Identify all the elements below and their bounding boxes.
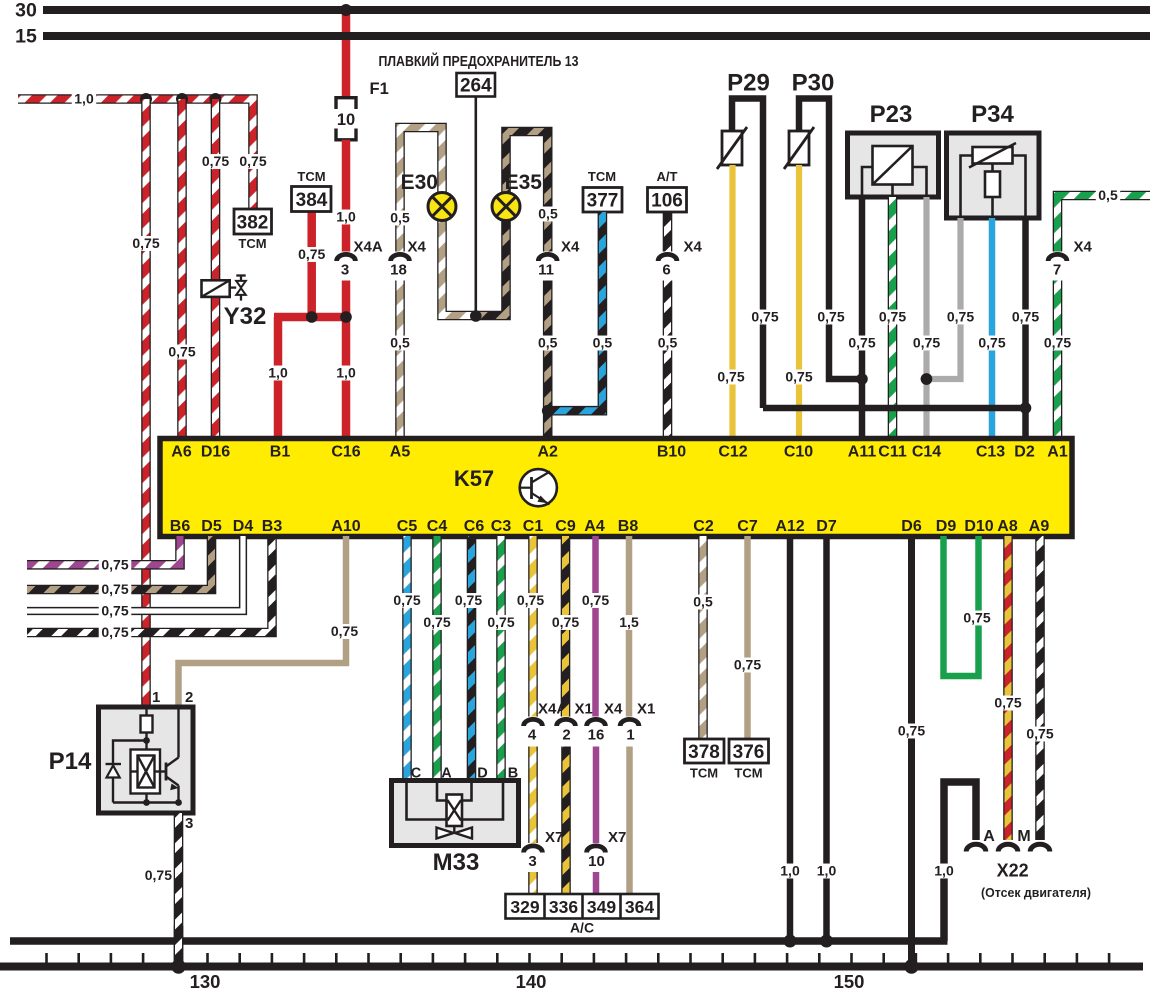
svg-text:C16: C16 — [331, 444, 360, 461]
svg-text:0,75: 0,75 — [994, 694, 1021, 710]
wire: black K57 D6 to bottom rail — [908, 536, 915, 964]
node: junction 264/E30/E35 — [470, 310, 482, 322]
svg-text:D7: D7 — [816, 518, 837, 535]
svg-text:1,0: 1,0 — [934, 862, 954, 878]
wire: black/white K57 A9 to X22-M arc — [1035, 536, 1045, 840]
svg-text:C7: C7 — [737, 518, 758, 535]
svg-text:0,75: 0,75 — [487, 614, 514, 630]
wire: green/white top right to K57 A1 — [1058, 196, 1150, 252]
svg-text:1,0: 1,0 — [780, 862, 800, 878]
wire: yellow/white K57 C1 — [528, 536, 538, 717]
connector X4 pin 18 — [391, 254, 410, 261]
svg-text:376: 376 — [733, 742, 765, 763]
svg-text:X1: X1 — [637, 701, 655, 718]
transistor inside P14 — [155, 770, 167, 772]
svg-text:M: M — [1017, 828, 1030, 845]
svg-text:D6: D6 — [901, 518, 922, 535]
svg-text:A1: A1 — [1047, 444, 1068, 461]
wire: red/white to K57 A6 — [177, 99, 187, 439]
wire: blue/white K57 C5 to M33 C — [402, 536, 412, 781]
svg-text:336: 336 — [549, 897, 578, 917]
svg-text:C: C — [411, 766, 422, 782]
svg-text:D: D — [477, 766, 487, 782]
svg-text:X4: X4 — [561, 239, 580, 256]
wire: black K57 D7 to ground rail — [823, 536, 830, 941]
wire: red X4A-3 down to node, tee to B1 and C16 — [342, 281, 351, 440]
svg-text:A10: A10 — [331, 518, 360, 535]
svg-text:X7: X7 — [545, 829, 563, 846]
lamp E30 — [428, 193, 456, 221]
svg-text:384: 384 — [296, 190, 328, 211]
svg-text:382: 382 — [237, 213, 269, 234]
wire: purple K57 A4 — [592, 536, 599, 717]
svg-text:140: 140 — [516, 971, 547, 990]
node: A12 on upper rail — [784, 935, 797, 948]
svg-text:0,75: 0,75 — [455, 592, 482, 608]
svg-text:378: 378 — [688, 742, 720, 763]
svg-text:F1: F1 — [370, 80, 389, 98]
svg-text:0,75: 0,75 — [717, 368, 744, 384]
svg-text:0,75: 0,75 — [898, 722, 925, 738]
svg-text:130: 130 — [190, 971, 221, 990]
svg-text:X22: X22 — [997, 861, 1029, 881]
svg-text:TCM: TCM — [297, 169, 325, 184]
svg-text:2: 2 — [562, 727, 570, 744]
svg-text:2: 2 — [185, 689, 193, 706]
svg-text:D2: D2 — [1014, 444, 1035, 461]
svg-text:3: 3 — [341, 262, 349, 279]
svg-text:A11: A11 — [848, 444, 877, 461]
svg-text:377: 377 — [587, 191, 619, 212]
svg-text:0,75: 0,75 — [101, 581, 128, 597]
svg-text:0,5: 0,5 — [693, 593, 713, 609]
connector X4 pin 7 — [1048, 254, 1067, 261]
connector X4 pin 6 — [658, 254, 677, 261]
svg-text:0,75: 0,75 — [1026, 725, 1053, 741]
svg-text:1,5: 1,5 — [619, 614, 639, 630]
svg-text:TCM: TCM — [734, 766, 762, 781]
svg-text:30: 30 — [15, 0, 37, 22]
component box 384 (TCM) — [307, 212, 316, 318]
svg-text:0,75: 0,75 — [298, 246, 325, 262]
wire: yellow/black K57 C9 — [561, 536, 571, 717]
svg-text:A6: A6 — [171, 444, 192, 461]
wire: tan/white K57 C2 to 378 — [698, 536, 708, 739]
svg-text:0,75: 0,75 — [879, 308, 906, 324]
node: junction at x=146 — [140, 93, 152, 105]
wire: yellow P29 to K57 C12 — [729, 165, 735, 439]
svg-text:0,75: 0,75 — [751, 308, 778, 324]
svg-text:0,75: 0,75 — [331, 623, 358, 639]
svg-text:B1: B1 — [270, 444, 291, 461]
svg-text:P30: P30 — [792, 70, 835, 97]
node: junction 384 wire / red tee — [306, 311, 318, 323]
svg-text:C4: C4 — [427, 518, 448, 535]
svg-text:0,75: 0,75 — [423, 614, 450, 630]
svg-text:0,75: 0,75 — [913, 334, 940, 350]
control unit K57 — [160, 439, 1072, 537]
svg-text:ПЛАВКИЙ ПРЕДОХРАНИТЕЛЬ 13: ПЛАВКИЙ ПРЕДОХРАНИТЕЛЬ 13 — [379, 52, 579, 70]
component box 376 (TCM) — [729, 739, 769, 763]
svg-text:0,5: 0,5 — [658, 334, 678, 350]
svg-text:K57: K57 — [454, 466, 494, 491]
svg-text:16: 16 — [588, 727, 605, 744]
svg-text:TCM: TCM — [690, 766, 718, 781]
svg-text:0,75: 0,75 — [101, 624, 128, 640]
lamp E35 — [492, 193, 520, 221]
svg-text:1,0: 1,0 — [336, 364, 356, 380]
connector X4A pin 4 — [524, 719, 543, 726]
node: D7 on upper rail — [820, 935, 833, 948]
svg-text:1,0: 1,0 — [817, 862, 837, 878]
svg-text:0,5: 0,5 — [390, 334, 410, 350]
svg-text:(Отсек двигателя): (Отсек двигателя) — [981, 885, 1091, 900]
wire: tan/white K57 A5 up through X4-18 to lamp E30 loop — [395, 281, 405, 440]
svg-text:B6: B6 — [170, 518, 191, 535]
svg-text:C2: C2 — [693, 518, 714, 535]
svg-text:0,5: 0,5 — [538, 334, 558, 350]
wire: black P34 to K57 D2 — [1022, 218, 1029, 439]
svg-text:C3: C3 — [491, 518, 512, 535]
svg-text:A9: A9 — [1029, 518, 1050, 535]
svg-text:329: 329 — [510, 897, 539, 917]
svg-text:0,75: 0,75 — [132, 235, 159, 251]
svg-text:264: 264 — [460, 76, 492, 97]
wire: green loop K57 D9-D10 — [944, 536, 979, 676]
valve motor M33 — [392, 781, 519, 846]
svg-text:150: 150 — [834, 971, 865, 990]
svg-text:C11: C11 — [878, 444, 907, 461]
scale ticks — [45, 953, 48, 963]
svg-text:A: A — [441, 766, 452, 782]
svg-text:C13: C13 — [976, 444, 1005, 461]
component box 382 (TCM) — [237, 154, 270, 169]
bottom bar inside P14 — [113, 801, 179, 803]
svg-text:C1: C1 — [523, 518, 544, 535]
svg-text:0,75: 0,75 — [202, 153, 229, 169]
wire: black ground rail hook to X22 — [944, 782, 976, 941]
svg-text:B3: B3 — [262, 518, 283, 535]
svg-text:0,5: 0,5 — [1098, 187, 1118, 203]
svg-text:1: 1 — [626, 727, 634, 744]
node: junction red wire on bus 30 — [340, 4, 352, 16]
svg-text:C12: C12 — [718, 444, 747, 461]
wire: black/tan loop lamp E35 to K57 A2 — [476, 132, 548, 316]
svg-text:18: 18 — [390, 262, 407, 279]
bus 15 (ignition) — [43, 32, 1150, 40]
svg-text:A: A — [983, 828, 995, 845]
svg-text:0,75: 0,75 — [1044, 334, 1071, 350]
svg-text:1,0: 1,0 — [74, 90, 94, 106]
connector X7 pin 3 — [524, 846, 543, 853]
svg-text:X4: X4 — [604, 701, 623, 718]
component boxes 329/336/349/364 (A/C) — [506, 894, 659, 919]
bus 30 (battery) — [43, 6, 1150, 14]
svg-text:A4: A4 — [584, 518, 605, 535]
connector X4 pin 11 — [538, 254, 557, 261]
wire: green/white P23 to K57 C11 — [888, 197, 898, 439]
svg-text:E30: E30 — [401, 171, 438, 194]
ground rail lower with scale — [0, 963, 1143, 971]
connector X1 pin 2 — [557, 719, 576, 726]
svg-text:A2: A2 — [537, 444, 558, 461]
svg-text:0,75: 0,75 — [168, 343, 195, 359]
wire: blue/black K57 C6 to M33 D — [467, 536, 477, 781]
svg-text:3: 3 — [185, 815, 193, 832]
svg-text:TCM: TCM — [238, 236, 266, 251]
wire: red/white to K57 D16 through Y32 — [211, 99, 221, 439]
component box 378 (TCM) — [685, 739, 725, 763]
wire: black/tan K57 D5 to left — [27, 536, 212, 590]
svg-text:4: 4 — [528, 727, 537, 744]
svg-text:349: 349 — [587, 897, 616, 917]
svg-text:0,75: 0,75 — [848, 334, 875, 350]
svg-text:A12: A12 — [775, 518, 804, 535]
svg-text:TCM: TCM — [588, 169, 616, 184]
svg-text:10: 10 — [588, 853, 605, 870]
svg-text:C6: C6 — [464, 518, 485, 535]
svg-text:11: 11 — [538, 262, 554, 279]
svg-text:C5: C5 — [397, 518, 418, 535]
svg-text:15: 15 — [15, 26, 37, 48]
wire: black P29 hook to bus y408 — [732, 99, 763, 409]
fuse F1 (10A) — [336, 98, 356, 109]
svg-text:0,75: 0,75 — [101, 602, 128, 618]
svg-text:364: 364 — [625, 897, 654, 917]
node: junction at x=215 — [210, 93, 222, 105]
node: D6 on lower rail — [904, 959, 918, 973]
wire: black/white K57 B3 to left — [27, 536, 272, 633]
node: junction at x=182 — [176, 93, 188, 105]
wire: tan K57 B8 — [626, 536, 633, 717]
svg-text:0,75: 0,75 — [785, 368, 812, 384]
svg-text:X1: X1 — [575, 701, 593, 718]
svg-text:M33: M33 — [433, 849, 480, 876]
svg-text:X7: X7 — [608, 829, 626, 846]
wire: gray P23 to K57 C14 — [923, 197, 929, 439]
wire: red/white horizontal feed 1,0 — [18, 99, 253, 209]
svg-text:0,5: 0,5 — [538, 205, 558, 221]
svg-text:0,75: 0,75 — [963, 609, 990, 625]
svg-text:1: 1 — [152, 689, 160, 706]
wire: black/white P14 pin 3 over rail — [174, 926, 184, 963]
svg-text:Y32: Y32 — [224, 303, 267, 330]
svg-text:B10: B10 — [657, 444, 686, 461]
wire: blue P34 to K57 C13 — [989, 218, 996, 439]
svg-text:D16: D16 — [201, 444, 230, 461]
wire: red from bus 30 to fuse F1 (under buses) — [342, 10, 351, 96]
node: junction bus/D2 — [1020, 402, 1032, 414]
svg-text:P34: P34 — [971, 101, 1014, 128]
M33 internals — [407, 783, 504, 820]
connector X7 pin 10 — [587, 846, 606, 853]
ground rail upper — [10, 937, 948, 945]
svg-text:D5: D5 — [201, 518, 222, 535]
wire: tan K57 A10 to P14 pin 2 — [179, 536, 347, 707]
svg-text:B: B — [508, 766, 518, 782]
svg-text:P23: P23 — [870, 101, 913, 128]
svg-text:0,75: 0,75 — [947, 308, 974, 324]
pump symbol inside P14 — [131, 750, 161, 794]
wire: thin black 264 to node — [474, 97, 477, 317]
svg-text:3: 3 — [528, 853, 536, 870]
wire: yellow P30 to K57 C10 — [796, 165, 802, 439]
diode inside P14 — [106, 763, 122, 765]
svg-text:10: 10 — [337, 111, 355, 129]
svg-text:D4: D4 — [233, 518, 254, 535]
node: junction A2 wire — [542, 405, 554, 417]
svg-text:D10: D10 — [964, 518, 993, 535]
P14 internals — [145, 709, 147, 716]
svg-text:A/C: A/C — [570, 920, 594, 936]
connector X22 (engine bay) — [966, 844, 986, 851]
svg-text:C14: C14 — [912, 444, 941, 461]
wire: red/yellow K57 A8 to X22-A arc — [1003, 536, 1013, 840]
svg-text:D9: D9 — [936, 518, 957, 535]
component box 264 — [457, 73, 496, 97]
svg-text:P29: P29 — [727, 70, 770, 97]
svg-text:X4: X4 — [684, 239, 703, 256]
wire: blue/black 377 to A2 node — [552, 212, 602, 411]
svg-text:X4: X4 — [1074, 239, 1093, 256]
svg-text:0,75: 0,75 — [393, 592, 420, 608]
svg-text:6: 6 — [662, 262, 670, 279]
svg-text:X4A: X4A — [354, 239, 383, 256]
wire: white K57 D4 to left — [27, 536, 243, 611]
node: P14 pin3 on lower rail — [171, 959, 185, 973]
svg-text:0,75: 0,75 — [582, 592, 609, 608]
node: junction P34-gray/C14 — [921, 373, 933, 385]
wire: black K57 A12 to ground rail — [787, 536, 794, 941]
svg-text:1,0: 1,0 — [336, 208, 356, 224]
svg-text:0,5: 0,5 — [593, 334, 613, 350]
svg-text:A5: A5 — [390, 444, 411, 461]
wire: red F1 to X4A-3 — [342, 140, 351, 252]
svg-text:7: 7 — [1053, 262, 1061, 279]
solenoid valve Y32 — [202, 280, 230, 297]
wire: green/white K57 C4 to M33 A — [432, 536, 442, 781]
svg-text:E35: E35 — [505, 171, 543, 194]
svg-text:0,75: 0,75 — [145, 867, 172, 883]
connector X4 pin 16 — [587, 719, 606, 726]
svg-text:C9: C9 — [555, 518, 576, 535]
svg-text:0,75: 0,75 — [1012, 308, 1039, 324]
svg-text:A/T: A/T — [657, 169, 678, 184]
connector X1 pin 1 — [620, 719, 639, 726]
svg-text:0,75: 0,75 — [978, 334, 1005, 350]
connector X4A pin 3 — [337, 254, 356, 261]
wire: purple/white K57 B6 to left — [27, 536, 180, 565]
wire: gray P34 to C14 node — [927, 218, 961, 379]
svg-text:B8: B8 — [618, 518, 639, 535]
node: junction P30/A11 — [856, 373, 868, 385]
node: junction X4A wire / red tee — [340, 311, 352, 323]
wire: black/white 106 through X4-6 to K57 B10 — [663, 212, 673, 252]
svg-text:0,75: 0,75 — [101, 556, 128, 572]
svg-text:0,5: 0,5 — [390, 209, 410, 225]
svg-text:A8: A8 — [997, 518, 1018, 535]
svg-text:0,75: 0,75 — [552, 614, 579, 630]
svg-text:0,75: 0,75 — [239, 153, 266, 169]
svg-text:106: 106 — [651, 191, 683, 212]
svg-text:0,75: 0,75 — [517, 592, 544, 608]
svg-text:P14: P14 — [49, 748, 92, 775]
wire: black P23 to K57 A11 — [859, 197, 866, 439]
wire: red/white to P14 pin1 (long vertical) — [141, 99, 151, 707]
wire: tan K57 C7 to 376 — [744, 536, 751, 739]
svg-text:C10: C10 — [784, 444, 813, 461]
svg-text:0,75: 0,75 — [817, 308, 844, 324]
wire: black bus P29 to D2 — [763, 405, 1026, 412]
wire: green/white K57 C3 to M33 B — [496, 536, 506, 781]
svg-text:X4: X4 — [408, 239, 427, 256]
wire: black P30 hook to A11 — [799, 99, 862, 380]
svg-text:0,75: 0,75 — [734, 656, 761, 672]
transistor symbol inside K57 — [520, 469, 557, 506]
svg-text:1,0: 1,0 — [268, 364, 288, 380]
